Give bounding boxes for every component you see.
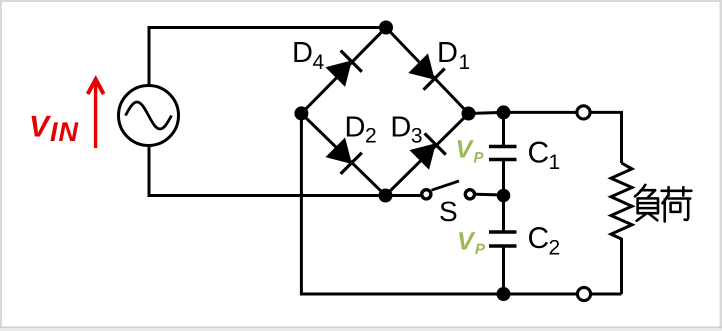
label S bbox=[439, 196, 458, 227]
node: left of bridge bbox=[294, 106, 308, 120]
svg-text:2: 2 bbox=[549, 237, 561, 260]
diamond edge: left node to top node (wire) bbox=[301, 28, 386, 114]
diode D1 (top node to right node) bbox=[409, 54, 444, 89]
label V_P (C1) bbox=[456, 136, 485, 167]
wire from AC source top to top node bbox=[149, 28, 386, 86]
svg-text:C: C bbox=[528, 137, 550, 170]
svg-text:2: 2 bbox=[365, 124, 377, 147]
load resistor (zigzag) bbox=[611, 163, 632, 294]
AC source V_IN bbox=[119, 86, 179, 146]
wire from capacitor top node to load top bbox=[504, 112, 622, 163]
diamond edge: left node to bottom node (wire) bbox=[301, 113, 385, 195]
label D4 bbox=[292, 37, 325, 74]
label D1 bbox=[437, 37, 470, 74]
wire from left node down and along bottom rail to load bbox=[301, 113, 621, 294]
diode D2 (left node to bottom node) bbox=[326, 139, 361, 174]
node: capacitor bottom (on bottom rail) bbox=[497, 287, 511, 301]
svg-text:3: 3 bbox=[411, 124, 423, 147]
diode D4 (left node to top node) bbox=[326, 51, 361, 86]
label D3 bbox=[390, 111, 422, 147]
wire from AC source bottom to switch (through bottom node) bbox=[149, 146, 421, 196]
svg-text:C: C bbox=[528, 222, 550, 255]
svg-text:1: 1 bbox=[459, 51, 471, 74]
svg-text:D: D bbox=[345, 111, 366, 143]
svg-text:D: D bbox=[292, 37, 313, 69]
svg-text:P: P bbox=[474, 150, 485, 167]
label 負荷 (load) bbox=[635, 185, 691, 222]
node: capacitor top bbox=[497, 105, 511, 119]
svg-text:IN: IN bbox=[50, 117, 79, 147]
capacitor C2 bbox=[489, 196, 517, 295]
svg-text:V: V bbox=[29, 111, 52, 144]
svg-text:V: V bbox=[457, 227, 476, 255]
diamond edge: bottom node to right node (wire) bbox=[386, 114, 469, 196]
switch S bbox=[422, 181, 504, 199]
svg-text:1: 1 bbox=[549, 151, 561, 174]
label C2 bbox=[528, 222, 561, 260]
svg-text:S: S bbox=[439, 196, 458, 227]
node: bottom of bridge bbox=[379, 189, 393, 203]
capacitor C1 bbox=[489, 112, 517, 195]
svg-text:D: D bbox=[390, 111, 411, 143]
svg-text:D: D bbox=[437, 37, 458, 69]
red arrow (V_IN polarity) bbox=[88, 79, 104, 148]
wire from right node to capacitor top node bbox=[469, 112, 504, 113]
label V_P (C2) bbox=[457, 227, 486, 258]
node: between C1 and C2 bbox=[497, 189, 511, 203]
label D2 bbox=[345, 111, 377, 147]
label V_IN bbox=[29, 111, 79, 148]
svg-text:P: P bbox=[475, 241, 486, 258]
node: right of bridge bbox=[462, 107, 476, 121]
svg-text:4: 4 bbox=[313, 51, 325, 74]
label C1 bbox=[528, 137, 561, 175]
diamond edge: top node to right node (wire) bbox=[386, 28, 469, 114]
diode D3 (bottom node to right node) bbox=[410, 133, 445, 168]
node: top of bridge bbox=[379, 21, 393, 35]
terminal: bottom open circle bbox=[577, 287, 590, 300]
svg-text:V: V bbox=[456, 136, 475, 164]
terminal: top open circle bbox=[577, 106, 590, 119]
